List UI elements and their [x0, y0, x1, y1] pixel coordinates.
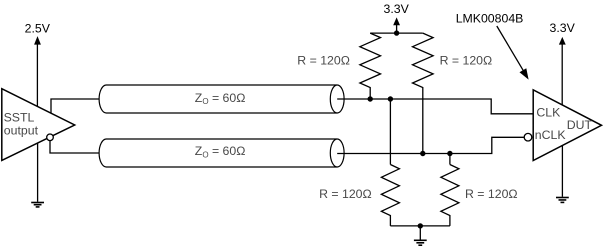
wire top bar joining R1 R2 — [370, 32, 423, 34]
wire nCLK net from TL2 to step — [337, 137, 525, 153]
ground (termination) — [414, 240, 427, 245]
label U1 "SSTL output" — [4, 110, 39, 137]
node junction dot ground tap — [418, 223, 423, 228]
node junction dot CLK down-lead — [388, 96, 393, 101]
svg-text:DUT: DUT — [567, 118, 593, 132]
wire 2.5V stem into U1 — [36, 44, 38, 107]
resistor R2 120 ohm pull-up on nCLK — [413, 33, 434, 153]
bubble on U1 inverted output — [47, 134, 54, 141]
resistor R1 120 ohm pull-up on CLK — [360, 33, 381, 99]
resistor R4 120 ohm pull-down on nCLK — [441, 165, 459, 226]
bubble on DUT nCLK input — [524, 133, 532, 141]
svg-text:LMK00804B: LMK00804B — [456, 11, 524, 25]
node junction dot 3.3V tap — [394, 30, 399, 35]
node junction dot R2 to nCLK — [420, 151, 425, 156]
wire bottom bar joining R3 R4 — [390, 225, 450, 227]
wire nCLK to R4 lead — [449, 154, 451, 165]
svg-text:nCLK: nCLK — [535, 128, 567, 142]
svg-text:R = 120Ω: R = 120Ω — [465, 187, 518, 201]
supply 3.3V arrow (termination) — [393, 17, 400, 25]
supply 2.5V arrow — [34, 36, 41, 45]
svg-text:3.3V: 3.3V — [550, 21, 576, 35]
wire CLK net from TL1 to step — [337, 99, 533, 114]
wire 3.3V stem into DUT — [561, 44, 563, 105]
svg-text:3.3V: 3.3V — [384, 2, 410, 16]
wire CLK tap from U1 top edge — [51, 99, 100, 113]
buffer U1 SSTL output driver triangle — [2, 89, 75, 161]
resistor R3 120 ohm pull-down on CLK — [381, 165, 399, 226]
svg-text:output: output — [4, 123, 39, 137]
node junction dot nCLK down-lead — [447, 151, 452, 156]
wire DUT ground stem — [561, 146, 563, 197]
svg-text:R = 120Ω: R = 120Ω — [319, 187, 372, 201]
ground (DUT) — [556, 198, 569, 203]
svg-text:SSTL: SSTL — [4, 110, 35, 124]
wire U1 ground stem — [37, 143, 39, 202]
annotation arrow to DUT — [497, 26, 523, 70]
supply 3.3V arrow (DUT) — [559, 37, 566, 45]
wire CLK to R3 lead — [389, 99, 391, 165]
transmission line TL1 body — [99, 85, 337, 113]
wire 3.3V stem to resistor bar — [396, 24, 398, 33]
transmission line TL1 right end ellipse — [330, 85, 344, 113]
transmission line TL2 right end ellipse — [330, 139, 344, 167]
wire ground stem (termination) — [419, 226, 421, 240]
node junction dot R1 to CLK — [368, 96, 373, 101]
transmission line TL2 body — [99, 139, 337, 167]
svg-text:R = 120Ω: R = 120Ω — [440, 53, 493, 67]
device DUT input triangle — [533, 90, 601, 161]
wire nCLK from bubble to TL2 — [50, 141, 100, 153]
svg-text:R = 120Ω: R = 120Ω — [297, 53, 350, 67]
svg-text:2.5V: 2.5V — [25, 21, 51, 35]
ground (SSTL output) — [31, 203, 44, 207]
svg-text:CLK: CLK — [536, 106, 561, 120]
